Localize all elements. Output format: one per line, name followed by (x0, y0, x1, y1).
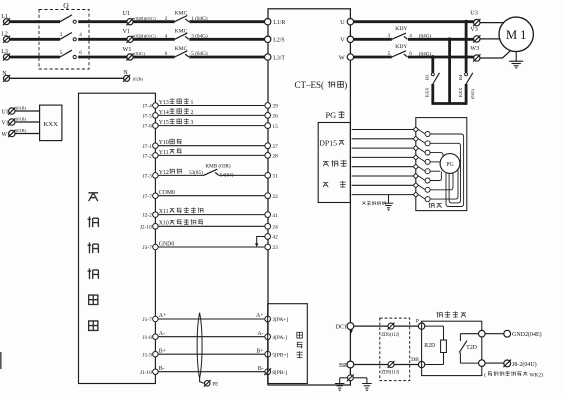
svg-text:29: 29 (272, 104, 278, 110)
node J7-3 / signal Y12使能 (143, 168, 279, 179)
svg-text:U1: U1 (2, 110, 9, 116)
terminal PE (204, 380, 211, 387)
node pin 42 stub to GND0 (255, 234, 278, 247)
wire encoder line 5 (352, 166, 414, 168)
node J7-1 / signal Y10上行 (143, 139, 279, 150)
wire W1 to KXX (15, 133, 39, 135)
svg-text:(01B): (01B) (16, 105, 27, 110)
inverter CT-ES box (268, 9, 350, 385)
svg-text:(02B)(01C): (02B)(01C) (134, 16, 156, 21)
svg-text:B-: B- (258, 366, 264, 372)
wire Q to U1 terminal (78, 20, 127, 23)
svg-text:KMB (03R): KMB (03R) (205, 162, 230, 169)
terminal L1/R (265, 19, 271, 25)
svg-text:4[PA-]: 4[PA-] (272, 335, 287, 341)
star-sealing bottom bar (432, 102, 468, 105)
node J7-7 / signal COM0 (143, 190, 279, 200)
svg-text:J2-2: J2-2 (143, 213, 153, 219)
svg-text:Y12: Y12 (159, 170, 169, 176)
node J7-2 / signal Y11下行 (143, 149, 279, 160)
wire W to KDY (354, 56, 392, 59)
wire L1 to Q (10, 20, 61, 23)
svg-text:J7-5: J7-5 (143, 114, 153, 120)
svg-text:(01C): (01C) (134, 51, 145, 56)
connector ZD6(11J) (387, 323, 394, 330)
svg-text:J1-7: J1-7 (143, 317, 153, 323)
svg-text:P: P (416, 318, 419, 324)
svg-text:41: 41 (272, 213, 278, 219)
star-sealing drop W phase (431, 57, 434, 73)
svg-text:GND2(04E): GND2(04E) (512, 331, 542, 338)
svg-text:A+: A+ (159, 313, 166, 319)
svg-text:Y11: Y11 (159, 150, 169, 156)
wire shield to PE (200, 378, 204, 383)
terminal L3/T (265, 54, 271, 60)
terminal DB (418, 361, 424, 367)
contact KDY lower (392, 51, 406, 57)
svg-text:5[PB+]: 5[PB+] (272, 352, 288, 358)
svg-text:U1: U1 (123, 10, 131, 17)
node J1-8 / encoder signal A- (143, 331, 288, 341)
wire N (10, 77, 124, 79)
resistor R2D (424, 326, 446, 364)
contact KMB on Y12 row (189, 162, 234, 178)
svg-text:27: 27 (272, 144, 278, 150)
svg-text:X10: X10 (159, 221, 169, 227)
wire U1 to KXX (15, 110, 40, 112)
node J7-4 / signal Y13多段速1 (143, 98, 279, 109)
svg-text:Y15: Y15 (159, 120, 169, 126)
plug connector dashed box (380, 318, 410, 381)
node J2-2 / signal X11变频器故障 (143, 207, 279, 218)
svg-text:6: 6 (165, 51, 168, 57)
svg-text:B-: B- (159, 366, 165, 372)
junction W (431, 55, 435, 59)
svg-text:J1-10: J1-10 (140, 370, 152, 376)
node J3-7 / signal GND0 (143, 241, 279, 251)
svg-text:1: 1 (190, 100, 193, 106)
svg-text:T2D: T2D (466, 345, 477, 351)
terminal U (347, 19, 353, 25)
svg-text:V1: V1 (2, 121, 9, 127)
frequency divider card box (268, 304, 308, 384)
svg-text:J3-7: J3-7 (143, 245, 153, 251)
wire L2 to Q (10, 38, 61, 41)
wire KMC to inverter input 1 (189, 20, 264, 23)
scan artifact left edge (0, 352, 2, 369)
relay KXX box (40, 105, 62, 141)
shield box (416, 118, 467, 211)
node J1-7 / encoder signal A+ (143, 313, 289, 323)
svg-text:B3: B3 (425, 74, 430, 80)
svg-text:V3: V3 (470, 26, 478, 33)
svg-text:15: 15 (272, 124, 278, 130)
shielded cable ellipse (197, 313, 202, 379)
wire U to U3 (354, 20, 474, 23)
wire KMC to inverter input 2 (189, 38, 264, 41)
contact KDY upper (392, 33, 406, 39)
svg-text:J8-2(04U): J8-2(04U) (512, 361, 537, 368)
svg-text:PE: PE (212, 383, 218, 388)
svg-text:(01B): (01B) (16, 116, 27, 121)
svg-text:26: 26 (272, 114, 278, 120)
contactor KMC pole 1 (175, 16, 188, 22)
svg-text:L1/R: L1/R (273, 20, 285, 26)
svg-text:U3: U3 (470, 10, 478, 17)
wire U2 to KMC contact (133, 38, 175, 41)
svg-text:X11: X11 (159, 209, 169, 215)
breaker Q contact pole 1 (73, 20, 76, 23)
node J1-10 / encoder signal B- (140, 366, 287, 376)
terminal GND2(04E) (504, 330, 511, 337)
connector pin pair 8 (413, 192, 430, 202)
label bianmaqi (323, 160, 347, 167)
svg-text:ZD6(11J): ZD6(11J) (381, 333, 399, 338)
svg-text:DC1: DC1 (336, 324, 347, 330)
svg-text:(02B)(01C): (02B)(01C) (134, 33, 156, 38)
svg-text:42: 42 (272, 235, 278, 241)
svg-text:KMC: KMC (175, 28, 188, 34)
svg-text:31: 31 (272, 174, 278, 180)
breaker Q contact pole 2 (73, 38, 76, 41)
wire DC1 to P (354, 325, 419, 327)
ground tap to motor shell (388, 195, 390, 203)
svg-text:R2D: R2D (424, 343, 435, 349)
svg-text:KMC: KMC (175, 46, 188, 52)
star-sealing drop V phase (448, 39, 451, 103)
terminal BR (347, 361, 354, 368)
terminal PE below BR (347, 374, 354, 381)
svg-text:A-: A- (257, 331, 263, 337)
svg-text:J2-10: J2-10 (140, 224, 152, 230)
svg-text:J1-9: J1-9 (143, 352, 153, 358)
contact KEX B3 (425, 73, 440, 97)
wire PE to grounds (340, 377, 348, 379)
wire encoder line 2 (352, 138, 414, 140)
breaker Q dashed box (39, 10, 89, 70)
connector pin pair 7 (413, 183, 430, 193)
star-sealing drop U phase (465, 22, 468, 73)
svg-text:(04G): (04G) (470, 88, 475, 99)
wire KDY to W3 (408, 56, 474, 59)
vertical label fenpinka (297, 332, 303, 338)
svg-text:W1: W1 (123, 46, 132, 53)
svg-text:J7-3: J7-3 (143, 174, 153, 180)
contact KEX B4 (458, 73, 475, 99)
wire to J8-2 (485, 362, 504, 364)
svg-text:PG: PG (446, 162, 453, 168)
ground right (362, 384, 372, 392)
wire L3 to Q (10, 56, 61, 59)
ground left (335, 384, 345, 392)
connector pin pair 3 (413, 146, 430, 156)
connector pin pair 1 (413, 127, 430, 137)
breaker Q contact pole 3 (73, 55, 76, 58)
connector pin pair 4 (413, 155, 430, 165)
svg-text:6: 6 (79, 50, 82, 56)
svg-text:WK2): WK2) (530, 371, 544, 378)
svg-text:BR: BR (339, 363, 347, 369)
svg-text:Y13: Y13 (159, 100, 169, 106)
svg-text:A-: A- (159, 331, 165, 337)
wire W3 to motor (480, 50, 511, 58)
svg-text:L3/T: L3/T (273, 55, 285, 61)
wire V3 to motor (480, 38, 500, 40)
motor ground (515, 52, 517, 62)
junction V (448, 37, 452, 41)
svg-text:U: U (340, 19, 345, 26)
svg-text:3[PA+]: 3[PA+] (272, 317, 288, 323)
svg-text:PG: PG (326, 111, 337, 120)
svg-text:J7-4: J7-4 (143, 104, 153, 110)
wire encoder line 1 (352, 129, 414, 131)
svg-text:V: V (340, 37, 345, 44)
svg-text:28: 28 (272, 154, 278, 160)
svg-text:Q: Q (63, 1, 69, 10)
wire BR to DB (354, 364, 419, 366)
node J7-5 / signal Y14多段速2 (143, 108, 279, 119)
svg-text:4: 4 (165, 34, 168, 40)
connector ZD8(11J) (387, 361, 394, 368)
svg-text:3: 3 (388, 33, 391, 39)
svg-text:J7-1: J7-1 (143, 144, 153, 150)
svg-text:DB: DB (411, 357, 419, 363)
svg-text:A+: A+ (256, 313, 263, 319)
vertical label weiji kongzhi danyuan (88, 193, 98, 201)
terminal L2/S (265, 36, 271, 42)
microcomputer control unit box (79, 93, 156, 383)
svg-text:L2/S: L2/S (273, 38, 284, 44)
svg-text:J1-8: J1-8 (143, 335, 153, 341)
terminal L1 (1, 14, 8, 20)
motor M1 (499, 17, 533, 51)
connector pin pair 5 (413, 164, 430, 174)
svg-text:B4: B4 (458, 74, 463, 80)
junction U (464, 20, 468, 24)
thermal switch T2D (459, 330, 485, 366)
DP15 encoder interface box (318, 123, 350, 203)
svg-text:3: 3 (190, 120, 193, 126)
encoder PG wiring (430, 134, 464, 207)
connector pin pair 6 (413, 173, 430, 183)
wire encoder line 7 (352, 184, 414, 186)
svg-text:COM0: COM0 (159, 190, 175, 196)
encoder PG circle (440, 154, 460, 174)
svg-text:KEX: KEX (425, 87, 430, 97)
svg-text:23: 23 (272, 245, 278, 251)
svg-text:B+: B+ (256, 348, 263, 354)
svg-text:Y10: Y10 (159, 140, 169, 146)
svg-text:53(85): 53(85) (189, 169, 203, 176)
wire encoder line 6 (352, 175, 414, 177)
contactor KMC pole 2 (175, 33, 188, 39)
svg-text:KDY: KDY (395, 26, 407, 32)
svg-text:W: W (339, 54, 346, 61)
node J2-10 / signal X10变频器运行 (140, 219, 278, 230)
wire encoder line 3 (352, 147, 414, 149)
svg-text:J7-7: J7-7 (143, 194, 153, 200)
wire U3 to KMC contact (133, 56, 175, 59)
svg-text:2: 2 (190, 110, 193, 116)
terminal DC1 (347, 323, 354, 330)
svg-text:KXX: KXX (44, 121, 59, 128)
svg-text:GND0: GND0 (159, 241, 175, 247)
svg-text:24: 24 (272, 225, 278, 231)
terminal P (418, 323, 424, 329)
svg-text:V1: V1 (123, 28, 131, 35)
svg-text:(: ( (484, 371, 486, 378)
label jie dianji waike (362, 201, 386, 205)
svg-text:J7-2: J7-2 (143, 154, 153, 160)
svg-text:54(84): 54(84) (220, 172, 234, 179)
svg-text:KDY: KDY (395, 44, 407, 50)
svg-text:3: 3 (60, 32, 63, 38)
svg-text:(02B): (02B) (133, 77, 144, 82)
svg-text:(01B): (01B) (16, 128, 27, 133)
node J1-9 / encoder signal B+ (143, 348, 289, 358)
svg-text:DP15: DP15 (319, 139, 337, 148)
svg-text:8[PB-]: 8[PB-] (272, 370, 287, 376)
svg-text:J7-6: J7-6 (143, 124, 153, 130)
svg-text:CT–ES(: CT–ES( (295, 80, 325, 90)
label jiekou (323, 183, 328, 188)
svg-text:W3: W3 (470, 45, 479, 52)
svg-text:M 1: M 1 (506, 28, 527, 42)
svg-text:): ) (344, 80, 347, 90)
junction marker below DC1 (349, 330, 353, 334)
svg-text:KEX: KEX (458, 87, 463, 97)
wire encoder line 4 (352, 156, 414, 158)
wire Q to U3 terminal (78, 56, 127, 59)
svg-text:B+: B+ (159, 348, 166, 354)
svg-text:5: 5 (388, 51, 391, 57)
wire KDY to V3 (408, 38, 474, 41)
svg-text:Y14: Y14 (159, 110, 169, 116)
wire to GND2 (485, 333, 504, 335)
braking resistor box (422, 321, 482, 375)
wire encoder line 8 (352, 194, 414, 196)
terminal V (347, 36, 353, 42)
wire U3 to motor (480, 22, 504, 24)
terminal W (347, 54, 353, 60)
svg-text:5: 5 (60, 50, 63, 56)
label pingbi (shield) (429, 203, 442, 209)
svg-text:22: 22 (272, 194, 278, 200)
connector pin pair 2 (413, 136, 430, 146)
wire Q to U2 terminal (78, 38, 127, 41)
wire U1 to KMC contact (133, 20, 175, 23)
wire V1 to KXX (15, 121, 40, 123)
svg-text:2: 2 (165, 16, 168, 22)
svg-text:KMC: KMC (175, 11, 188, 17)
wire KMC to inverter input 3 (189, 56, 264, 59)
svg-text:ZD8(11J): ZD8(11J) (381, 370, 399, 375)
contactor KMC pole 3 (175, 51, 188, 57)
terminal J8-2(04U) (503, 360, 511, 368)
label zhidong dianzu (braking resistor) (437, 311, 466, 317)
node J7-6 / signal Y15多段速3 (143, 118, 279, 129)
wire V to KDY (354, 38, 392, 41)
svg-text:4: 4 (79, 32, 82, 38)
